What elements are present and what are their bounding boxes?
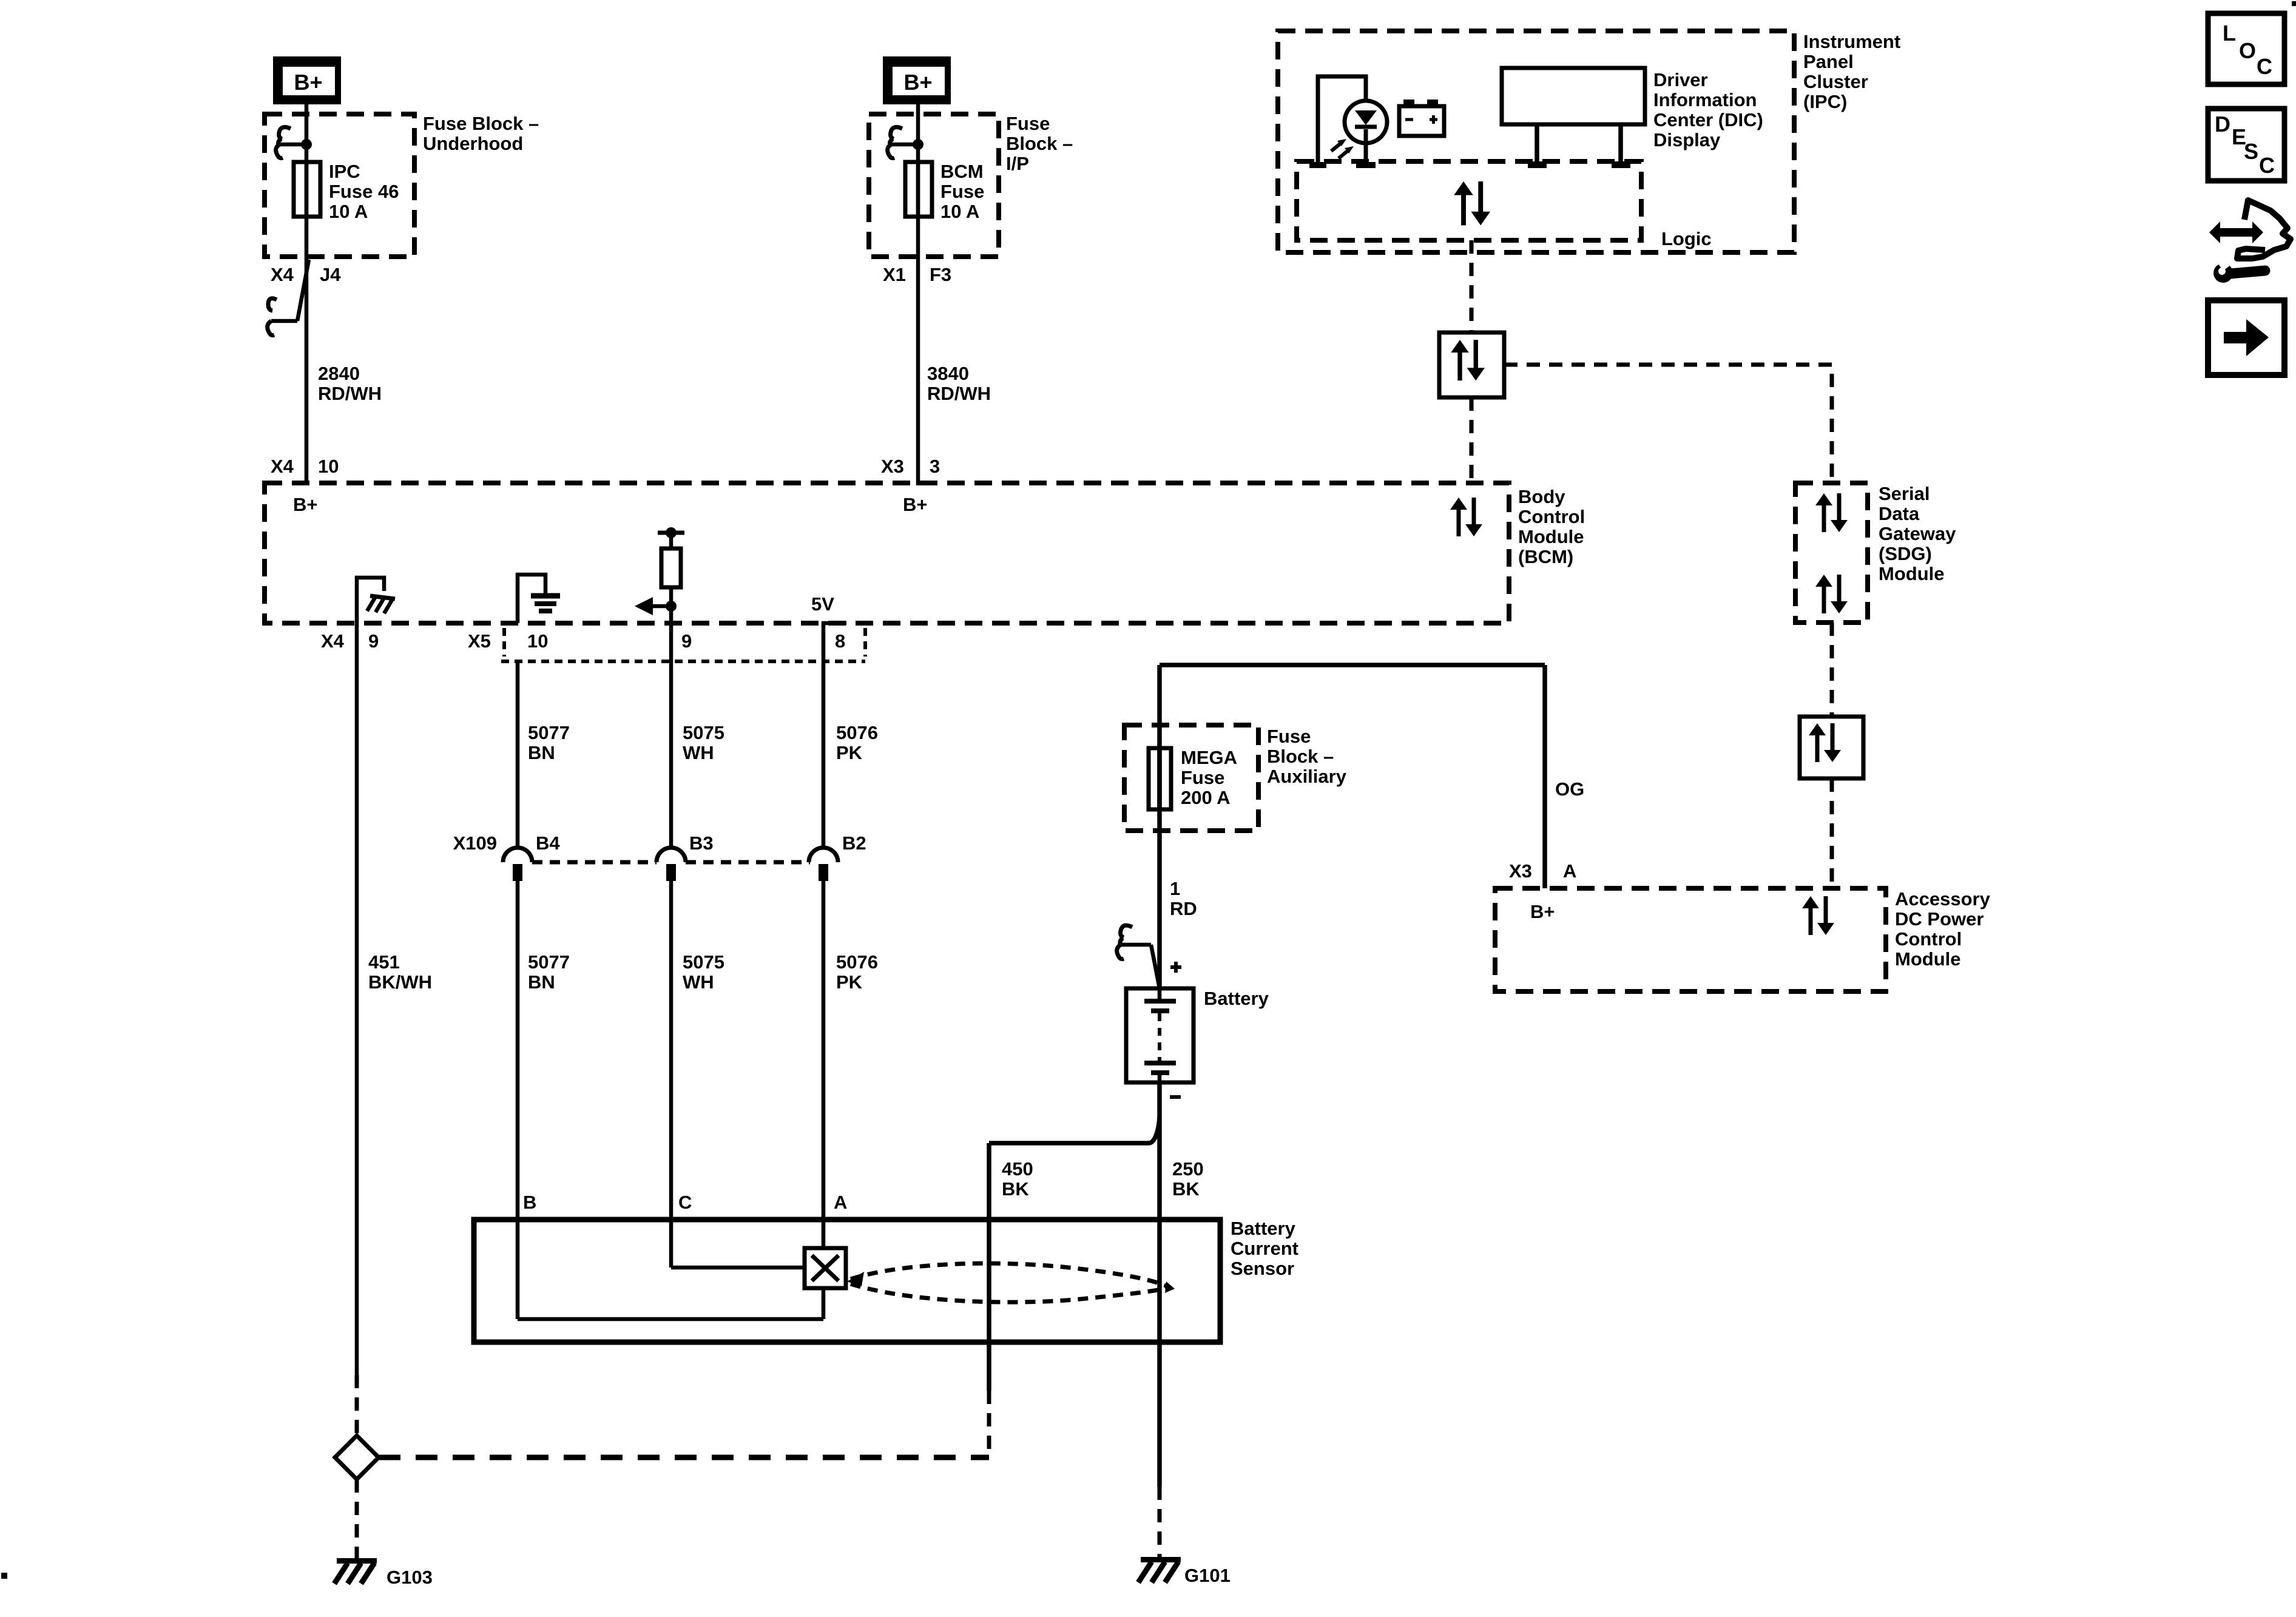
wire 451 dashed segment to splice	[355, 1375, 359, 1434]
svg-text:BN: BN	[528, 742, 555, 763]
svg-text:RD/WH: RD/WH	[927, 383, 991, 404]
svg-text:D: D	[2215, 112, 2230, 137]
svg-text:Module: Module	[1518, 526, 1584, 547]
page artifact bottom left	[1, 1573, 7, 1579]
svg-text:BN: BN	[528, 971, 555, 993]
tap diagonal and hook at X4 J4	[268, 260, 309, 336]
svg-text:Logic: Logic	[1661, 228, 1712, 249]
svg-text:1: 1	[1170, 878, 1180, 899]
serial data gateway (SDG) module dashed box	[1795, 483, 1868, 623]
DESC legend box	[2208, 109, 2284, 181]
svg-text:WH: WH	[683, 742, 714, 763]
wire 5077 BN upper segment	[516, 661, 520, 848]
svg-text:X4: X4	[271, 456, 294, 477]
svg-text:451: 451	[368, 951, 400, 973]
ground clip symbol wire at BCM X4-9	[357, 578, 384, 623]
svg-text:WH: WH	[683, 971, 714, 993]
DIC display rectangle	[1502, 68, 1645, 124]
connector X109 pin B4	[503, 848, 532, 881]
ground clip symbol in BCM	[367, 596, 395, 613]
connector X109 pin B3	[657, 848, 686, 881]
hook tap at IPC fuse input	[276, 127, 312, 158]
svg-text:Gateway: Gateway	[1879, 523, 1956, 544]
wire 250 BK from battery negative	[1157, 1082, 1162, 1487]
svg-text:450: 450	[1002, 1158, 1033, 1180]
svg-text:S: S	[2244, 139, 2258, 164]
svg-text:J4: J4	[320, 264, 341, 285]
svg-text:B+: B+	[294, 70, 322, 95]
serial data line box A to SDG	[1504, 365, 1832, 485]
svg-text:250: 250	[1172, 1158, 1204, 1180]
svg-text:Data: Data	[1879, 503, 1920, 524]
wire 450 BK dashed segment to ground bus	[987, 1391, 991, 1457]
svg-text:X3: X3	[1509, 860, 1532, 882]
svg-text:B4: B4	[536, 832, 560, 854]
diagnostic car icon with arrow and wrench	[2209, 200, 2291, 283]
svg-text:3840: 3840	[927, 363, 969, 384]
svg-text:Battery: Battery	[1231, 1218, 1296, 1239]
svg-text:F3: F3	[930, 264, 951, 285]
serial data line SDG to box B	[1830, 623, 1834, 717]
svg-text:Center (DIC): Center (DIC)	[1653, 109, 1763, 130]
connector X5 dotted outline	[502, 628, 506, 657]
svg-text:Instrument: Instrument	[1803, 31, 1900, 52]
DIC display legs	[1537, 124, 1621, 163]
svg-text:B+: B+	[903, 494, 928, 515]
svg-text:Cluster: Cluster	[1803, 71, 1868, 92]
svg-text:C: C	[2259, 153, 2275, 178]
svg-text:OG: OG	[1555, 778, 1584, 800]
svg-text:Panel: Panel	[1803, 51, 1854, 72]
svg-text:B+: B+	[1530, 901, 1555, 922]
svg-text:Control: Control	[1518, 506, 1585, 527]
svg-text:IPC: IPC	[329, 161, 360, 182]
svg-text:B3: B3	[689, 832, 714, 854]
svg-text:C: C	[2257, 54, 2272, 79]
svg-text:Module: Module	[1895, 948, 1961, 970]
svg-text:BK: BK	[1002, 1178, 1029, 1200]
wire 450 BK branch from battery negative	[989, 1118, 1160, 1143]
wire 5075 WH lower segment	[669, 879, 674, 1268]
svg-text:3: 3	[930, 456, 940, 477]
svg-text:Fuse Block –: Fuse Block –	[423, 113, 539, 134]
svg-text:(SDG): (SDG)	[1879, 543, 1932, 564]
svg-text:BK: BK	[1172, 1178, 1200, 1200]
svg-text:G103: G103	[387, 1567, 433, 1588]
body control module (BCM) dashed box	[265, 483, 1509, 623]
svg-text:Driver: Driver	[1653, 69, 1708, 90]
label + at battery	[1170, 962, 1181, 973]
photodiode loop wire	[1318, 76, 1366, 165]
sensor element X box	[805, 1248, 846, 1288]
battery feed wire B+ rail (horizontal)	[1160, 663, 1545, 667]
serial data arrows in logic box	[1454, 181, 1490, 225]
wire 250 BK dashed segment to G101	[1158, 1487, 1162, 1557]
serial data line IPC to BCM	[1470, 240, 1474, 333]
svg-text:5075: 5075	[683, 722, 724, 743]
splice diamond	[335, 1436, 379, 1479]
svg-text:Fuse: Fuse	[940, 181, 984, 202]
page artifact top right	[2292, 1, 2296, 6]
svg-text:5077: 5077	[528, 722, 570, 743]
ground G103	[334, 1558, 377, 1584]
serial data arrows in accessory module	[1802, 896, 1834, 935]
svg-text:Block –: Block –	[1006, 133, 1073, 154]
battery current sensor box	[474, 1220, 1220, 1342]
svg-text:BK/WH: BK/WH	[368, 971, 432, 993]
svg-text:Serial: Serial	[1879, 483, 1930, 504]
svg-text:G101: G101	[1184, 1565, 1231, 1586]
wire 451 dashed segment splice to G103	[355, 1479, 359, 1558]
photodiode light arrows	[1331, 139, 1354, 158]
svg-text:(BCM): (BCM)	[1518, 546, 1573, 567]
svg-text:X5: X5	[468, 630, 491, 652]
svg-text:I/P: I/P	[1006, 153, 1029, 174]
svg-text:B+: B+	[293, 494, 318, 515]
fuse block auxiliary dashed box	[1124, 725, 1258, 831]
svg-text:Current: Current	[1231, 1238, 1298, 1259]
fuse BCM Fuse 10 A	[905, 162, 932, 217]
svg-text:Battery: Battery	[1204, 988, 1269, 1009]
svg-text:5076: 5076	[836, 951, 878, 973]
resistor feed bar and junction in BCM	[658, 531, 684, 535]
svg-text:MEGA: MEGA	[1181, 747, 1237, 768]
connector X109 pin B2	[809, 848, 838, 881]
sensor coupling dashed oval	[847, 1263, 1175, 1302]
svg-text:Underhood: Underhood	[423, 133, 523, 154]
svg-text:L: L	[2223, 21, 2236, 46]
svg-text:A: A	[834, 1192, 847, 1213]
svg-text:X1: X1	[883, 264, 906, 285]
fuse block I/P dashed box	[869, 114, 999, 257]
svg-text:A: A	[1563, 860, 1576, 882]
sensor internal wire B loop	[518, 1288, 823, 1319]
next-page arrow legend box	[2208, 300, 2284, 375]
svg-text:(IPC): (IPC)	[1803, 91, 1847, 112]
earth ground symbol in BCM	[531, 596, 560, 611]
svg-text:5075: 5075	[683, 951, 724, 973]
hook tap at BCM fuse input	[888, 127, 923, 158]
svg-text:B2: B2	[842, 832, 866, 854]
label - at battery	[1170, 1095, 1181, 1099]
LOC legend box	[2208, 13, 2284, 84]
wiper arrow (variable tap)	[635, 597, 677, 615]
svg-text:RD/WH: RD/WH	[318, 383, 382, 404]
wire from B+ terminal through BCM fuse to BCM X3-3	[916, 103, 920, 485]
IPC logic dashed box	[1297, 161, 1641, 240]
svg-text:Fuse: Fuse	[1181, 767, 1224, 788]
ground bus dashed line from splice to 450 BK	[379, 1455, 989, 1460]
svg-text:200 A: 200 A	[1181, 787, 1231, 808]
hook tap at battery positive	[1117, 925, 1160, 988]
svg-text:Control: Control	[1895, 928, 1962, 950]
wire 5076 PK corner at BCM pin 8	[823, 623, 846, 848]
svg-text:Information: Information	[1653, 89, 1757, 110]
serial data junction box B	[1800, 717, 1863, 778]
photodiode D1	[1309, 101, 1387, 168]
svg-text:2840: 2840	[318, 363, 360, 384]
fuse IPC Fuse 46 10 A	[294, 162, 320, 217]
svg-text:O: O	[2239, 38, 2256, 63]
svg-text:Block –: Block –	[1267, 746, 1334, 767]
svg-text:9: 9	[368, 630, 379, 652]
svg-text:Sensor: Sensor	[1231, 1258, 1294, 1279]
svg-text:B+: B+	[903, 70, 932, 95]
svg-text:RD: RD	[1170, 898, 1197, 919]
svg-text:X4: X4	[271, 264, 294, 285]
wire 1 RD vertical (MEGA fuse feed)	[1157, 665, 1162, 990]
resistor R (BCM internal)	[661, 549, 681, 587]
fuse block underhood dashed box	[265, 114, 414, 257]
svg-text:10: 10	[527, 630, 548, 652]
svg-text:Display: Display	[1653, 129, 1721, 150]
ground G101	[1138, 1557, 1181, 1582]
svg-text:X3: X3	[881, 456, 904, 477]
svg-text:5V: 5V	[811, 593, 834, 615]
svg-text:8: 8	[835, 630, 845, 652]
svg-text:Fuse 46: Fuse 46	[329, 181, 399, 202]
svg-text:Auxiliary: Auxiliary	[1267, 766, 1347, 787]
svg-text:C: C	[678, 1192, 692, 1213]
svg-text:10 A: 10 A	[940, 201, 979, 222]
earth ground wire at BCM X5-10	[518, 575, 545, 623]
svg-text:5076: 5076	[836, 722, 878, 743]
svg-text:BCM: BCM	[940, 161, 984, 182]
serial data line box A to BCM	[1470, 397, 1474, 485]
svg-text:PK: PK	[836, 742, 863, 763]
svg-text:5077: 5077	[528, 951, 570, 973]
svg-text:Accessory: Accessory	[1895, 888, 1991, 910]
serial data arrows in SDG (lower)	[1815, 575, 1848, 613]
svg-text:Fuse: Fuse	[1006, 113, 1050, 134]
svg-text:B: B	[523, 1192, 536, 1213]
serial data junction box A	[1439, 333, 1504, 397]
svg-text:X109: X109	[453, 832, 497, 854]
X109 dashed connector line	[532, 860, 810, 865]
terminal B+ (fuse block underhood feed)	[273, 56, 341, 104]
serial data arrows in SDG (upper)	[1815, 493, 1848, 532]
wire 450 BK vertical	[987, 1143, 991, 1391]
svg-text:Module: Module	[1879, 563, 1945, 584]
accessory DC power control module dashed box	[1495, 888, 1886, 991]
battery	[1126, 988, 1194, 1082]
MEGA fuse 200 A	[1149, 748, 1171, 809]
instrument panel cluster (IPC) dashed box	[1278, 31, 1794, 252]
serial data line box B to accessory module	[1830, 778, 1834, 888]
svg-text:X4: X4	[321, 630, 345, 652]
wire 451 BK/WH	[355, 623, 359, 1375]
svg-text:PK: PK	[836, 971, 863, 993]
wire 5077 BN lower segment	[516, 879, 520, 1319]
battery charge icon in IPC	[1399, 100, 1444, 136]
serial data arrows in BCM	[1450, 498, 1482, 536]
wire OG vertical to accessory module	[1542, 665, 1547, 888]
wire 5076 PK lower segment	[822, 879, 826, 1248]
svg-text:10 A: 10 A	[329, 201, 368, 222]
svg-text:10: 10	[318, 456, 339, 477]
svg-text:Fuse: Fuse	[1267, 726, 1311, 747]
svg-text:9: 9	[681, 630, 692, 652]
svg-text:DC Power: DC Power	[1895, 908, 1984, 930]
sensor internal wire C leg	[671, 1266, 805, 1270]
svg-text:Body: Body	[1518, 486, 1565, 507]
wire from B+ terminal through IPC fuse to BCM X4-10	[305, 103, 309, 485]
terminal B+ (fuse block I/P feed)	[883, 56, 951, 104]
wire 5075 WH inside BCM	[669, 587, 674, 848]
